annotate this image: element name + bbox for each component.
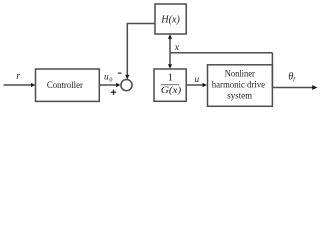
wire 1/G(x) to system: [186, 83, 207, 87]
wire input r: [4, 83, 36, 87]
block Nonliner harmonic drive system: [208, 65, 273, 107]
svg-text:H(x): H(x): [160, 14, 180, 25]
label theta_l: [288, 72, 295, 84]
label plus sign: [111, 90, 116, 95]
wire feedback right vertical: [271, 53, 273, 88]
wire output theta: [272, 85, 317, 90]
block 1/G(x): [154, 69, 186, 101]
svg-text:1: 1: [168, 72, 173, 83]
wire feedback top horizontal: [170, 52, 272, 54]
svg-text:u: u: [194, 75, 199, 85]
label u0: [104, 73, 112, 84]
svg-text:0: 0: [109, 76, 112, 83]
block Controller: [36, 69, 100, 101]
wire H(x) output to summing junction: [125, 24, 155, 80]
svg-text:Controller: Controller: [47, 81, 84, 91]
svg-text:harmonic drive: harmonic drive: [212, 80, 265, 90]
svg-text:l: l: [293, 77, 295, 84]
wire x vertical branch: [168, 34, 172, 69]
label minus sign: [118, 72, 122, 74]
svg-text:G(x): G(x): [161, 85, 181, 96]
svg-text:system: system: [227, 92, 252, 102]
svg-text:r: r: [16, 71, 20, 82]
wire Controller to summing junction: [99, 83, 120, 87]
summing junction: [121, 80, 132, 91]
svg-text:x: x: [174, 43, 180, 53]
block H(x): [155, 4, 186, 34]
svg-text:Nonliner: Nonliner: [225, 70, 256, 80]
